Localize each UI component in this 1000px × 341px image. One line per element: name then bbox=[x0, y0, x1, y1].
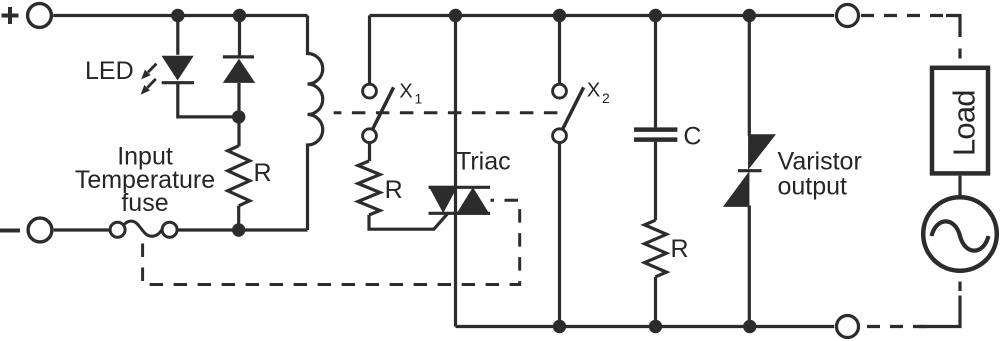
svg-text:R: R bbox=[254, 159, 272, 187]
wire capacitor to resistor bbox=[654, 142, 657, 220]
svg-text:R: R bbox=[671, 235, 689, 263]
resistor R3 (snubber) bbox=[645, 220, 667, 277]
resistor R2 (gate) bbox=[358, 161, 380, 215]
node dot bottom-varistor bbox=[743, 320, 756, 333]
wire snubber resistor to bottom rail bbox=[654, 277, 657, 327]
capacitor C1 bbox=[634, 130, 677, 140]
dashed wire AC source to bottom rail bbox=[958, 282, 961, 292]
node dot LED-diode junction bbox=[232, 110, 245, 123]
wire X1 branch from rail bbox=[368, 16, 371, 85]
svg-text:Load: Load bbox=[947, 90, 982, 157]
wire X2 branch from rail bbox=[558, 16, 561, 85]
input terminal negative bbox=[28, 218, 52, 242]
svg-text:X: X bbox=[587, 80, 600, 102]
wire top rail right bbox=[370, 14, 835, 17]
node dot bottom-X2 bbox=[553, 320, 566, 333]
wire load to AC source bbox=[958, 176, 961, 198]
svg-text:Varistor: Varistor bbox=[778, 147, 862, 175]
svg-text:1: 1 bbox=[415, 91, 423, 107]
wire X1 to resistor bbox=[368, 143, 371, 161]
dashed mechanical link coil to X1 X2 bbox=[334, 111, 558, 114]
node dot bottom-snubber bbox=[649, 320, 662, 333]
wire top rail left bbox=[53, 14, 307, 17]
node dot rail-X2 bbox=[553, 9, 566, 22]
wire varistor to bottom rail bbox=[748, 206, 751, 327]
AC source G1 bbox=[923, 197, 997, 271]
LED emission arrows bbox=[141, 64, 157, 95]
wire varistor branch from rail bbox=[748, 16, 751, 137]
switch X1 bbox=[363, 84, 394, 142]
triac Q1 bbox=[429, 186, 491, 215]
diode D2 (reverse protection) bbox=[223, 57, 255, 83]
wire X2 to bottom rail bbox=[558, 143, 561, 327]
plus polarity sign bbox=[2, 7, 19, 24]
node dot rail-triac bbox=[449, 9, 462, 22]
wire fuse to coil bottom bbox=[177, 228, 308, 231]
svg-text:fuse: fuse bbox=[121, 189, 168, 217]
resistor R1 (input) bbox=[228, 146, 250, 206]
svg-text:X: X bbox=[399, 81, 412, 103]
wire gate resistor to triac gate bbox=[369, 213, 449, 230]
coil (relay coil) bbox=[308, 16, 323, 231]
wire bottom rail bbox=[456, 325, 835, 328]
wire diode to resistor bbox=[237, 83, 240, 146]
load box bbox=[932, 68, 988, 174]
varistor RV1 bbox=[723, 134, 776, 207]
input terminal positive bbox=[28, 4, 52, 28]
wire input bottom (negative to fuse) bbox=[54, 228, 111, 231]
wire triac main vertical bbox=[454, 16, 457, 327]
output terminal bottom bbox=[837, 316, 859, 338]
fuse F1 bbox=[110, 221, 177, 237]
LED D1 bbox=[162, 56, 194, 83]
wire LED cathode down and right bbox=[178, 83, 239, 117]
svg-text:R: R bbox=[385, 176, 403, 204]
svg-text:LED: LED bbox=[85, 57, 134, 85]
node dot rail-varistor bbox=[743, 9, 756, 22]
wire resistor to input bottom bbox=[237, 206, 240, 230]
wire capacitor branch from rail bbox=[654, 16, 657, 128]
wire diode branch from rail bbox=[238, 16, 241, 57]
svg-text:Triac: Triac bbox=[456, 148, 511, 176]
switch X2 bbox=[553, 84, 584, 142]
dashed link fuse to triac gate bbox=[143, 200, 520, 284]
node dot rail-LED bbox=[171, 9, 184, 22]
output terminal top bbox=[837, 5, 859, 27]
node dot rail-diode bbox=[233, 9, 246, 22]
svg-text:output: output bbox=[778, 173, 848, 201]
svg-text:2: 2 bbox=[602, 90, 610, 106]
node dot resistor-fuse wire bbox=[232, 223, 245, 236]
wire LED branch from rail bbox=[176, 16, 179, 55]
dashed wire output top to load bbox=[861, 14, 950, 17]
node dot rail-capacitor bbox=[649, 9, 662, 22]
minus polarity sign bbox=[0, 229, 20, 233]
svg-text:C: C bbox=[683, 123, 701, 151]
